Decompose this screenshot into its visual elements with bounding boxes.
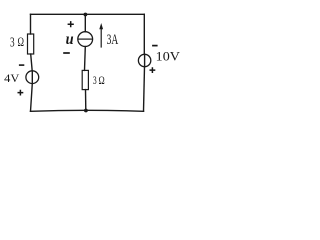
svg-text:u: u	[66, 31, 74, 48]
wire top	[31, 13, 145, 15]
label plus of Us1	[18, 90, 24, 96]
current arrow head	[99, 23, 103, 29]
current source Is 3A circle	[78, 32, 93, 47]
wire through Us2	[144, 54, 146, 66]
wire middle (Is to resistor R2)	[84, 47, 87, 71]
junction node B dot	[84, 109, 88, 113]
wire bottom	[31, 109, 144, 112]
label minus of Us2	[152, 45, 158, 47]
wire right lower (Us2 to bottom corner)	[144, 67, 145, 112]
voltage source Us2 10V circle	[138, 54, 150, 66]
label minus of u	[63, 52, 70, 54]
wire middle upper (junction A to current source Is)	[84, 14, 86, 31]
svg-text:Ω: Ω	[99, 75, 105, 87]
junction node A dot	[84, 13, 88, 17]
wire left lower (R1 through source Us1 to bottom corner)	[31, 54, 33, 111]
resistor R1 3 ohm left	[28, 34, 34, 54]
svg-text:10V: 10V	[156, 49, 180, 63]
svg-text:4V: 4V	[4, 71, 20, 85]
svg-text:3A: 3A	[107, 32, 119, 48]
svg-text:3: 3	[10, 34, 15, 49]
wire right upper (top corner to source Us2)	[143, 14, 145, 54]
current source Is crossbar	[78, 38, 92, 40]
svg-text:Ω: Ω	[18, 35, 25, 49]
resistor R2 3 ohm middle	[82, 70, 88, 89]
label plus of u	[68, 21, 74, 27]
voltage source Us1 4V circle	[26, 71, 39, 84]
current arrow for 3A annotation	[100, 28, 102, 47]
label minus of Us1	[19, 64, 24, 66]
label plus of Us2	[150, 67, 156, 73]
wire middle lower (R2 to junction B)	[85, 90, 87, 111]
wire left upper (top corner to resistor R1)	[30, 14, 32, 34]
svg-text:3: 3	[93, 73, 97, 87]
